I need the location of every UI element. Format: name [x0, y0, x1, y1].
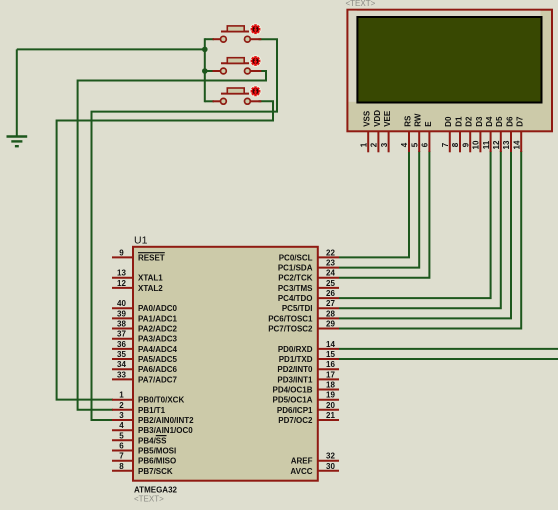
svg-text:PC7/TOSC2: PC7/TOSC2: [268, 325, 313, 334]
U1 left pin 38 PA2/ADC2: [112, 320, 178, 334]
svg-text:27: 27: [326, 299, 335, 308]
svg-text:33: 33: [117, 370, 126, 379]
junction ground tap: [202, 47, 208, 53]
wire bus to button1 left terminal: [205, 38, 214, 40]
svg-text:PD6/ICP1: PD6/ICP1: [277, 406, 313, 415]
U1 right pin 20 PD6/ICP1: [277, 401, 339, 415]
svg-text:PC6/TOSC1: PC6/TOSC1: [268, 314, 313, 323]
LCD pin 7 D0: [441, 116, 453, 152]
svg-text:PB4/SS: PB4/SS: [138, 436, 167, 445]
U1 right pin 26 PC4/TDO: [278, 289, 339, 303]
svg-text:PD4/OC1B: PD4/OC1B: [272, 386, 312, 395]
svg-text:13: 13: [117, 269, 126, 278]
svg-text:10: 10: [472, 140, 481, 149]
svg-text:11: 11: [482, 140, 491, 149]
wire LCD E to PC2: [339, 151, 429, 278]
svg-text:PC2/TCK: PC2/TCK: [278, 274, 312, 283]
push button SW1: [213, 26, 262, 42]
U1 right pin 15 PD1/TXD: [279, 350, 339, 364]
U1 left pin 33 PA7/ADC7: [112, 370, 178, 384]
wire LCD D4 to PC4: [339, 151, 491, 298]
U1 left pin 40 PA0/ADC0: [112, 299, 178, 313]
svg-text:PD3/INT1: PD3/INT1: [277, 375, 313, 384]
U1 right pin 18 PD4/OC1B: [272, 381, 339, 395]
svg-text:26: 26: [326, 289, 335, 298]
svg-text:28: 28: [326, 309, 335, 318]
svg-text:PB1/T1: PB1/T1: [138, 406, 166, 415]
svg-text:20: 20: [326, 401, 335, 410]
U1 right pin 28 PC6/TOSC1: [268, 309, 339, 323]
wire LCD RW to PC1: [339, 151, 419, 268]
push button SW2: [213, 58, 262, 74]
svg-text:7: 7: [441, 142, 450, 147]
wire LCD D6 to PC6: [339, 151, 511, 318]
svg-text:8: 8: [451, 142, 460, 147]
svg-text:XTAL1: XTAL1: [138, 274, 163, 283]
svg-text:22: 22: [326, 248, 335, 257]
junction button2 tap: [202, 68, 208, 74]
svg-text:PC1/SDA: PC1/SDA: [278, 264, 313, 273]
svg-text:U1: U1: [134, 235, 148, 247]
svg-text:14: 14: [512, 140, 521, 149]
wire button3 to PB0: [57, 101, 273, 399]
svg-text:12: 12: [117, 279, 126, 288]
U1 left pin 12 XTAL2: [112, 279, 163, 293]
LCD pin 10 D3: [472, 116, 484, 152]
svg-text:D3: D3: [475, 116, 484, 127]
wire ground vertical stem: [16, 49, 18, 136]
svg-text:15: 15: [326, 350, 335, 359]
button SW3 actuator star: [250, 85, 262, 97]
svg-text:12: 12: [492, 140, 501, 149]
svg-text:PD0/RXD: PD0/RXD: [278, 345, 313, 354]
svg-text:XTAL2: XTAL2: [138, 284, 163, 293]
svg-text:PB5/MOSI: PB5/MOSI: [138, 447, 176, 456]
LCD pin 12 D5: [492, 116, 504, 152]
svg-text:PA7/ADC7: PA7/ADC7: [138, 375, 178, 384]
LCD pin 6 E: [421, 121, 433, 152]
ground: [7, 137, 28, 147]
svg-text:34: 34: [117, 360, 126, 369]
svg-text:25: 25: [326, 279, 335, 288]
wire button ground bus vertical: [204, 38, 206, 102]
U1 right pin 30 AVCC: [290, 462, 339, 476]
U1 right pin 17 PD3/INT1: [277, 370, 339, 384]
LCD pin 9 D2: [461, 116, 473, 152]
svg-text:PA4/ADC4: PA4/ADC4: [138, 345, 178, 354]
svg-text:D7: D7: [516, 116, 525, 127]
svg-text:VSS: VSS: [363, 110, 372, 127]
svg-text:2: 2: [370, 142, 379, 147]
svg-text:24: 24: [326, 269, 335, 278]
svg-text:AVCC: AVCC: [290, 467, 312, 476]
svg-text:D6: D6: [505, 116, 514, 127]
svg-text:9: 9: [119, 248, 124, 257]
svg-text:29: 29: [326, 320, 335, 329]
U1 left pin 39 PA1/ADC1: [112, 309, 178, 323]
U1 left pin 6 PB5/MOSI: [112, 442, 176, 456]
svg-text:36: 36: [117, 340, 126, 349]
svg-text:E: E: [424, 121, 433, 127]
LCD pin 8 D1: [451, 116, 463, 152]
svg-text:14: 14: [326, 340, 335, 349]
wire PD1/TXD to right edge: [339, 358, 558, 360]
svg-text:19: 19: [326, 391, 335, 400]
svg-text:9: 9: [461, 142, 470, 147]
U1 right pin 25 PC3/TMS: [278, 279, 339, 293]
svg-text:D5: D5: [495, 116, 504, 127]
svg-text:PD7/OC2: PD7/OC2: [278, 416, 313, 425]
wire LCD RS to PC0: [339, 151, 409, 257]
wire button1 to PB2: [92, 39, 278, 420]
LCD pin 2 VDD: [370, 110, 382, 153]
svg-text:5: 5: [410, 142, 419, 147]
svg-text:PA2/ADC2: PA2/ADC2: [138, 325, 178, 334]
svg-text:1: 1: [119, 391, 124, 400]
U1 left pin 34 PA6/ADC6: [112, 360, 178, 374]
svg-text:PB7/SCK: PB7/SCK: [138, 467, 173, 476]
svg-text:PB0/T0/XCK: PB0/T0/XCK: [138, 396, 184, 405]
U1 right pin 22 PC0/SCL: [279, 248, 339, 262]
U1 left pin 2 PB1/T1: [112, 401, 166, 415]
LCD LM016L body: [347, 10, 552, 132]
svg-text:6: 6: [421, 142, 430, 147]
U1 right pin 24 PC2/TCK: [278, 269, 339, 283]
svg-text:30: 30: [326, 462, 335, 471]
U1 right pin 29 PC7/TOSC2: [268, 320, 339, 334]
svg-text:<TEXT>: <TEXT>: [134, 495, 164, 504]
svg-text:AREF: AREF: [291, 457, 313, 466]
button SW1 actuator star: [250, 23, 262, 35]
svg-text:4: 4: [119, 421, 124, 430]
svg-text:17: 17: [326, 370, 335, 379]
U1 left pin 5 PB4/SS: [112, 431, 167, 445]
U1 left pin 36 PA4/ADC4: [112, 340, 178, 354]
U1 text placeholder: [134, 495, 164, 504]
LCD screen: [357, 17, 541, 103]
svg-text:<TEXT>: <TEXT>: [346, 0, 376, 8]
svg-text:3: 3: [119, 411, 124, 420]
svg-text:7: 7: [119, 452, 124, 461]
svg-text:RESET: RESET: [138, 253, 165, 262]
svg-text:PC0/SCL: PC0/SCL: [279, 253, 313, 262]
U1 left pin 8 PB7/SCK: [112, 462, 173, 476]
svg-text:35: 35: [117, 350, 126, 359]
U1 right pin 16 PD2/INT0: [277, 360, 339, 374]
svg-text:32: 32: [326, 452, 335, 461]
svg-text:PC5/TDI: PC5/TDI: [282, 304, 313, 313]
U1 left pin 7 PB6/MISO: [112, 452, 176, 466]
svg-text:PD5/OC1A: PD5/OC1A: [272, 396, 312, 405]
U1 left pin 37 PA3/ADC3: [112, 330, 178, 344]
svg-text:PC4/TDO: PC4/TDO: [278, 294, 313, 303]
svg-text:PB6/MISO: PB6/MISO: [138, 457, 176, 466]
svg-text:13: 13: [502, 140, 511, 149]
svg-text:PA5/ADC5: PA5/ADC5: [138, 355, 178, 364]
microcontroller U1 body: [133, 247, 318, 481]
U1 right pin 14 PD0/RXD: [278, 340, 339, 354]
U1 right pin 21 PD7/OC2: [278, 411, 339, 425]
svg-text:5: 5: [119, 431, 124, 440]
svg-text:1: 1: [359, 142, 368, 147]
U1 left pin 4 PB3/AIN1/OC0: [112, 421, 193, 435]
svg-text:2: 2: [119, 401, 124, 410]
svg-text:RS: RS: [403, 115, 412, 127]
U1 value label ATMEGA32: [134, 486, 178, 495]
U1 right pin 32 AREF: [291, 452, 339, 466]
svg-text:PB2/AIN0/INT2: PB2/AIN0/INT2: [138, 416, 194, 425]
U1 left pin 13 XTAL1: [112, 269, 163, 283]
svg-text:38: 38: [117, 320, 126, 329]
svg-text:4: 4: [400, 142, 409, 147]
svg-text:40: 40: [117, 299, 126, 308]
wire bus to button3 left terminal: [205, 100, 214, 102]
U1 left pin 9 RESET: [112, 248, 165, 262]
svg-text:PA1/ADC1: PA1/ADC1: [138, 314, 178, 323]
svg-text:6: 6: [119, 442, 124, 451]
U1 right pin 27 PC5/TDI: [282, 299, 339, 313]
svg-text:RW: RW: [414, 113, 423, 127]
U1 left pin 3 PB2/AIN0/INT2: [112, 411, 194, 425]
LCD pin 13 D6: [502, 116, 514, 152]
svg-text:23: 23: [326, 259, 335, 268]
svg-text:PA6/ADC6: PA6/ADC6: [138, 365, 178, 374]
LCD pin 11 D4: [482, 116, 494, 152]
svg-text:PA0/ADC0: PA0/ADC0: [138, 304, 178, 313]
svg-text:3: 3: [380, 142, 389, 147]
svg-text:D0: D0: [444, 116, 453, 127]
wire LCD D5 to PC5: [339, 151, 501, 308]
LCD pin 4 RS: [400, 115, 412, 152]
push button SW3: [213, 88, 262, 104]
wire LCD D7 to PC7: [339, 151, 521, 329]
svg-text:18: 18: [326, 381, 335, 390]
svg-text:PC3/TMS: PC3/TMS: [278, 284, 313, 293]
U1 left pin 35 PA5/ADC5: [112, 350, 178, 364]
svg-text:VDD: VDD: [373, 110, 382, 127]
svg-text:D1: D1: [454, 116, 463, 127]
LCD pin 14 D7: [512, 116, 524, 152]
svg-text:39: 39: [117, 309, 126, 318]
U1 left pin 1 PB0/T0/XCK: [112, 391, 184, 405]
svg-text:PD2/INT0: PD2/INT0: [277, 365, 313, 374]
LCD pin 5 RW: [410, 113, 422, 152]
LCD pin 3 VEE: [380, 110, 392, 152]
svg-text:PD1/TXD: PD1/TXD: [279, 355, 313, 364]
U1 right pin 19 PD5/OC1A: [272, 391, 339, 405]
svg-text:ATMEGA32: ATMEGA32: [134, 486, 178, 495]
svg-text:37: 37: [117, 330, 126, 339]
svg-text:VEE: VEE: [383, 110, 392, 127]
svg-text:D2: D2: [465, 116, 474, 127]
LCD pin 1 VSS: [359, 110, 371, 152]
wire bus to button2 left terminal: [205, 70, 214, 72]
LCD bezel highlight: [349, 11, 541, 102]
button SW2 actuator star: [250, 55, 262, 67]
svg-text:D4: D4: [485, 116, 494, 127]
svg-text:PA3/ADC3: PA3/ADC3: [138, 335, 178, 344]
U1 right pin 23 PC1/SDA: [278, 259, 339, 273]
wire button2 to PB1: [78, 71, 266, 410]
svg-text:PB3/AIN1/OC0: PB3/AIN1/OC0: [138, 426, 193, 435]
svg-text:16: 16: [326, 360, 335, 369]
U1 reference label: [134, 235, 148, 247]
svg-text:8: 8: [119, 462, 124, 471]
LCD text placeholder: [346, 0, 376, 8]
wire PD0/RXD to right edge: [339, 348, 558, 350]
svg-text:21: 21: [326, 411, 335, 420]
wire ground horizontal to button bus: [17, 48, 206, 50]
